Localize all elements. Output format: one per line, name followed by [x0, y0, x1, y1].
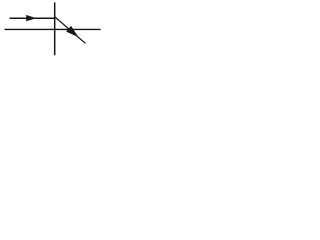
- horizontal wire (long axis wire): [5, 28, 101, 30]
- current arrow on top wire: [26, 15, 36, 21]
- arrowhead on diagonal wire: [67, 27, 77, 36]
- wire (top input wire): [10, 17, 56, 19]
- diagonal wire (deflected ray): [55, 17, 86, 43]
- vertical wire (bar): [54, 2, 56, 55]
